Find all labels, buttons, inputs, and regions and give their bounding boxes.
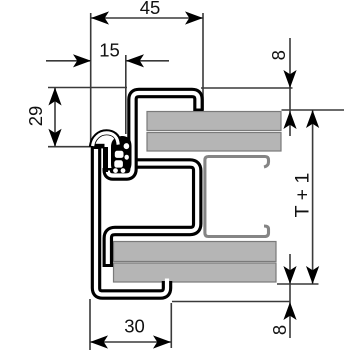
svg-text:T + 1: T + 1 xyxy=(292,173,314,218)
svg-text:15: 15 xyxy=(99,40,120,61)
svg-text:30: 30 xyxy=(124,316,145,337)
svg-text:45: 45 xyxy=(140,0,161,18)
svg-text:29: 29 xyxy=(25,106,46,127)
svg-text:8: 8 xyxy=(268,50,289,60)
svg-text:8: 8 xyxy=(269,325,290,335)
